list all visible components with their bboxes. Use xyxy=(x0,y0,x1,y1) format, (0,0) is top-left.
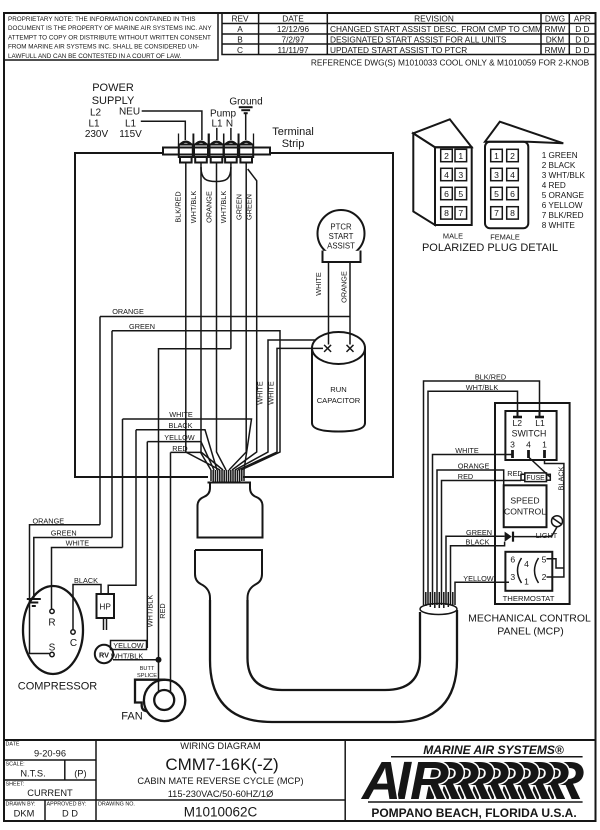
svg-text:ORANGE: ORANGE xyxy=(205,191,214,223)
svg-text:8: 8 xyxy=(444,208,449,218)
jumper loop T2-T4 xyxy=(201,167,231,182)
switch terminal L2 xyxy=(513,411,523,428)
run capacitor xyxy=(312,332,365,432)
svg-text:7: 7 xyxy=(494,208,499,218)
wire YELLOW left horizontal xyxy=(147,433,214,648)
svg-text:RUN: RUN xyxy=(330,385,346,394)
svg-text:1: 1 xyxy=(494,151,499,161)
svg-text:GREEN: GREEN xyxy=(466,528,492,537)
compressor xyxy=(18,586,98,693)
svg-text:LAWFULL AND CAN BE CONTEST: LAWFULL AND CAN BE CONTESTED IN A COURT … xyxy=(8,53,182,60)
PTCR lead ORANGE xyxy=(349,262,351,345)
svg-text:YELLOW: YELLOW xyxy=(463,574,494,583)
MCP caption xyxy=(468,613,591,638)
speed control box xyxy=(504,485,547,527)
reference dwg note xyxy=(311,58,590,68)
svg-text:D D: D D xyxy=(575,35,589,45)
wire WHT/BLK RV to butt splice xyxy=(111,652,159,661)
svg-text:WHT/BLK: WHT/BLK xyxy=(219,191,228,224)
svg-text:4: 4 xyxy=(444,170,449,180)
MCP bundle wire ORANGE xyxy=(437,462,504,605)
svg-text:WHITE: WHITE xyxy=(256,381,265,405)
svg-text:FEMALE: FEMALE xyxy=(490,233,520,242)
wire WHT/BLK from T2 xyxy=(201,163,223,471)
svg-text:12/12/96: 12/12/96 xyxy=(277,24,310,34)
svg-text:GREEN: GREEN xyxy=(129,322,155,331)
svg-text:4: 4 xyxy=(526,440,531,450)
svg-text:UPDATED START ASSIST TO PT: UPDATED START ASSIST TO PTCR xyxy=(330,45,467,55)
svg-text:1: 1 xyxy=(458,151,463,161)
rotated labels WHT/BLK RED fan wires xyxy=(146,595,168,628)
wire GREEN b from T5 xyxy=(232,169,257,470)
switch terminal L1 xyxy=(535,411,545,428)
revision table xyxy=(222,13,596,55)
wire BLACK switch 1 to thermostat 2 xyxy=(545,461,566,577)
lower left wire GREEN to compressor ground xyxy=(34,331,112,598)
svg-text:CAPACITOR: CAPACITOR xyxy=(317,396,361,405)
svg-text:3: 3 xyxy=(494,170,499,180)
main unit box xyxy=(75,153,393,477)
MCP bundle wire BLACK xyxy=(451,538,505,606)
MCP bundle wire RED xyxy=(442,472,522,605)
lower left wire ORANGE to compressor S xyxy=(30,317,101,654)
svg-text:4: 4 xyxy=(524,559,529,569)
svg-text:230V: 230V xyxy=(85,129,109,140)
thermostat box xyxy=(505,552,552,591)
compressor terminals R C S xyxy=(48,609,77,657)
svg-text:1 GREEN: 1 GREEN xyxy=(542,151,578,160)
svg-text:L1: L1 xyxy=(211,119,223,130)
compressor internal ground symbol xyxy=(27,599,41,606)
rotated labels WHITE / ORANGE on PTCR leads xyxy=(314,271,349,303)
svg-text:DKM: DKM xyxy=(546,35,565,45)
fan blower xyxy=(121,680,185,723)
MCP bundle wire GREEN xyxy=(446,528,505,605)
switch terminals 3 4 1 xyxy=(510,440,547,458)
svg-text:REFERENCE DWG(S) M1010033 C: REFERENCE DWG(S) M1010033 COOL ONLY & M1… xyxy=(311,58,590,68)
title block left column xyxy=(6,742,135,819)
svg-text:RMW: RMW xyxy=(545,24,566,34)
wire WHITE capacitor case to funnel xyxy=(235,340,316,470)
wire GREEN long (left to funnel) xyxy=(112,322,280,470)
svg-text:DKM: DKM xyxy=(14,809,35,819)
svg-text:6: 6 xyxy=(444,189,449,199)
MCP bundle wire WHITE xyxy=(433,446,512,605)
MCP bundle wire YELLOW xyxy=(455,574,509,605)
svg-text:DESIGNATED START ASSIST FOR: DESIGNATED START ASSIST FOR ALL UNITS xyxy=(330,35,507,45)
tube end extra hatch xyxy=(426,592,453,608)
svg-text:HP: HP xyxy=(99,602,111,612)
svg-text:N.T.S.: N.T.S. xyxy=(20,769,45,779)
title block frame xyxy=(4,740,596,821)
wire NEU to terminal 2 xyxy=(142,111,202,140)
svg-text:FAN: FAN xyxy=(121,711,142,723)
svg-text:R: R xyxy=(48,618,55,629)
wire BLK/RED from T1 xyxy=(186,163,220,471)
svg-text:MECHANICAL CONTROL: MECHANICAL CONTROL xyxy=(468,613,591,625)
wire RED left horizontal xyxy=(171,444,212,692)
svg-text:Terminal: Terminal xyxy=(272,126,314,138)
PTCR lead WHITE xyxy=(328,262,330,345)
svg-text:3: 3 xyxy=(458,170,463,180)
wire WHT/BLK splice to fan xyxy=(158,660,160,691)
plug detail caption xyxy=(422,242,558,254)
svg-text:MALE: MALE xyxy=(443,232,463,241)
svg-text:D D: D D xyxy=(62,809,78,819)
lower left wire WHITE to compressor R xyxy=(52,538,123,608)
svg-text:2: 2 xyxy=(510,151,515,161)
svg-text:FUSE: FUSE xyxy=(526,475,545,482)
wire L1 to terminal 1 xyxy=(141,121,186,140)
svg-text:N: N xyxy=(226,119,233,130)
wire BLACK compressor C to HP xyxy=(73,576,101,630)
svg-text:FROM MARINE AIR SYSTEMS IN: FROM MARINE AIR SYSTEMS INC. SHALL BE CO… xyxy=(8,44,199,51)
svg-text:RMW: RMW xyxy=(545,45,566,55)
switch box xyxy=(505,411,556,460)
plug pin legend xyxy=(542,151,586,230)
wire ORANGE from T3 xyxy=(217,163,227,471)
svg-text:4: 4 xyxy=(510,170,515,180)
svg-text:5: 5 xyxy=(494,189,499,199)
svg-text:2: 2 xyxy=(542,572,547,582)
wire pump L1 to terminal 3 xyxy=(216,128,218,140)
marine air systems logo xyxy=(360,743,584,820)
svg-text:BUTT: BUTT xyxy=(140,666,155,672)
svg-text:POMPANO BEACH, FLORIDA U.S.: POMPANO BEACH, FLORIDA U.S.A. xyxy=(371,806,576,820)
svg-text:SWITCH: SWITCH xyxy=(512,429,547,439)
MCP bundle wire BLK/RED xyxy=(424,373,540,606)
svg-text:START: START xyxy=(329,232,354,241)
svg-text:3: 3 xyxy=(510,572,515,582)
svg-text:DWG: DWG xyxy=(545,14,565,24)
svg-text:5: 5 xyxy=(458,189,463,199)
wire pump N to terminal 4 xyxy=(230,128,232,140)
svg-text:BLK/RED: BLK/RED xyxy=(475,373,506,382)
light lamp circle xyxy=(536,516,563,540)
wire WHITE left horizontal xyxy=(123,410,252,548)
wire GREEN a from T5 xyxy=(229,163,246,471)
svg-text:L1: L1 xyxy=(88,119,100,130)
svg-text:8: 8 xyxy=(510,208,515,218)
harness strain relief segment 1 xyxy=(198,483,263,538)
svg-text:WHITE: WHITE xyxy=(267,381,276,405)
svg-text:RED: RED xyxy=(458,472,473,481)
svg-text:PTCR: PTCR xyxy=(330,223,352,232)
svg-text:2: 2 xyxy=(444,151,449,161)
svg-text:THERMOSTAT: THERMOSTAT xyxy=(503,594,555,603)
wire WHT/BLK from T4 xyxy=(230,163,232,349)
svg-text:RV: RV xyxy=(99,650,109,659)
diagonal wire switch 4 to fuse xyxy=(529,457,550,477)
svg-text:(P): (P) xyxy=(74,769,86,779)
svg-text:5 ORANGE: 5 ORANGE xyxy=(542,191,585,200)
harness tube inner wall xyxy=(248,600,421,690)
HP switch xyxy=(97,594,115,630)
svg-text:3 WHT/BLK: 3 WHT/BLK xyxy=(542,171,586,180)
svg-text:RED: RED xyxy=(158,603,167,618)
svg-text:ORANGE: ORANGE xyxy=(112,307,144,316)
svg-text:GREEN: GREEN xyxy=(235,194,244,220)
svg-text:GREEN: GREEN xyxy=(245,194,254,220)
YELLOW boxed label at RV xyxy=(111,641,147,651)
title block center xyxy=(137,741,303,820)
svg-text:APR: APR xyxy=(574,14,591,24)
rotated wire labels under strip xyxy=(174,191,254,224)
svg-text:M1010062C: M1010062C xyxy=(184,805,258,820)
svg-text:NEU: NEU xyxy=(119,107,140,118)
svg-text:WHITE: WHITE xyxy=(66,538,90,547)
pump / ground labels xyxy=(210,97,263,130)
wire ORANGE long (left to capacitor right terminal) xyxy=(100,307,350,317)
svg-text:GREEN: GREEN xyxy=(51,528,77,537)
svg-text:DATE: DATE xyxy=(282,14,304,24)
ground symbol xyxy=(239,107,253,140)
svg-text:L2: L2 xyxy=(90,108,102,119)
polarized plug female connector xyxy=(485,122,563,242)
svg-text:5: 5 xyxy=(542,554,547,564)
MCP outer box xyxy=(495,403,570,604)
svg-text:CHANGED START ASSIST DESC.: CHANGED START ASSIST DESC. FROM CMP TO C… xyxy=(330,24,542,34)
svg-text:REV: REV xyxy=(231,14,249,24)
polarized plug male connector xyxy=(413,119,471,240)
svg-text:POWER: POWER xyxy=(92,82,134,94)
svg-text:L2: L2 xyxy=(513,418,523,428)
svg-text:REVISION: REVISION xyxy=(414,14,454,24)
svg-text:SPLICE: SPLICE xyxy=(137,673,157,679)
RV coil xyxy=(95,645,113,663)
terminal strip bar xyxy=(163,148,270,155)
svg-text:1: 1 xyxy=(524,577,529,587)
svg-text:CONTROL: CONTROL xyxy=(504,507,546,517)
svg-text:SPEED: SPEED xyxy=(510,496,539,506)
wire BLACK left horizontal xyxy=(108,421,217,594)
svg-text:CURRENT: CURRENT xyxy=(27,788,73,798)
svg-text:ATTEMPT TO COPY OR DISTRIB: ATTEMPT TO COPY OR DISTRIBUTE WITHOUT WR… xyxy=(8,34,211,41)
svg-text:BLACK: BLACK xyxy=(74,576,98,585)
svg-text:WHITE: WHITE xyxy=(169,410,193,419)
svg-text:DOCUMENT IS THE PROPERTY O: DOCUMENT IS THE PROPERTY OF MARINE AIR S… xyxy=(8,25,212,32)
svg-text:DATE: DATE xyxy=(6,742,20,748)
funnel bundle hatch xyxy=(211,470,244,482)
svg-text:6: 6 xyxy=(510,189,515,199)
proprietary note box xyxy=(4,13,218,60)
svg-text:BLACK: BLACK xyxy=(557,466,566,490)
svg-text:BLK/RED: BLK/RED xyxy=(174,191,183,222)
terminal strip label xyxy=(272,126,314,150)
terminal screw hooks xyxy=(179,134,254,145)
svg-text:WHITE: WHITE xyxy=(455,446,479,455)
rotated labels WHITE WHITE near funnel xyxy=(256,381,276,405)
svg-text:SCALE:: SCALE: xyxy=(6,762,25,768)
MCP bundle wire WHT/BLK xyxy=(428,383,518,605)
svg-text:7/2/97: 7/2/97 xyxy=(281,35,304,45)
svg-text:ASSIST: ASSIST xyxy=(327,242,355,251)
svg-text:115V: 115V xyxy=(119,129,142,140)
svg-text:3: 3 xyxy=(510,440,515,450)
svg-text:WHT/BLK: WHT/BLK xyxy=(146,595,155,628)
svg-text:COMPRESSOR: COMPRESSOR xyxy=(18,681,98,693)
thermostat label xyxy=(503,594,555,603)
wire WHT/BLK T4 to butt splice xyxy=(159,349,231,660)
svg-text:A: A xyxy=(237,24,243,34)
svg-text:CABIN MATE REVERSE CYCLE (: CABIN MATE REVERSE CYCLE (MCP) xyxy=(137,776,303,786)
wire thermostat 5 xyxy=(547,559,564,568)
svg-text:BLACK: BLACK xyxy=(169,421,193,430)
svg-text:WHT/BLK: WHT/BLK xyxy=(189,191,198,224)
harness tube end cap xyxy=(420,604,457,615)
svg-text:2 BLACK: 2 BLACK xyxy=(542,161,576,170)
svg-text:D D: D D xyxy=(575,45,589,55)
svg-text:4 RED: 4 RED xyxy=(542,181,566,190)
svg-text:YELLOW: YELLOW xyxy=(113,641,144,650)
fuse xyxy=(507,469,550,482)
svg-text:PANEL (MCP): PANEL (MCP) xyxy=(497,626,564,638)
svg-text:APPROVED BY:: APPROVED BY: xyxy=(47,802,87,808)
svg-text:7 BLK/RED: 7 BLK/RED xyxy=(542,211,584,220)
svg-text:115-230VAC/50-60HZ/1Ø: 115-230VAC/50-60HZ/1Ø xyxy=(168,789,274,799)
svg-text:Ground: Ground xyxy=(229,97,262,108)
svg-text:L1: L1 xyxy=(535,418,545,428)
svg-text:PROPRIETARY NOTE: THE INFORM: PROPRIETARY NOTE: THE INFORMATION CONTAI… xyxy=(8,16,195,23)
svg-text:9-20-96: 9-20-96 xyxy=(34,749,66,759)
svg-text:6: 6 xyxy=(510,554,515,564)
svg-text:B: B xyxy=(237,35,243,45)
wire WHITE capacitor left terminal to funnel xyxy=(238,348,323,470)
svg-text:DRAWN BY:: DRAWN BY: xyxy=(6,802,36,808)
svg-text:YELLOW: YELLOW xyxy=(164,433,195,442)
svg-text:SUPPLY: SUPPLY xyxy=(92,95,135,107)
svg-text:D D: D D xyxy=(575,24,589,34)
svg-text:C: C xyxy=(237,45,243,55)
harness tube outer wall xyxy=(210,600,457,722)
power supply labels xyxy=(85,82,142,140)
svg-text:6 YELLOW: 6 YELLOW xyxy=(542,201,583,210)
svg-text:L1: L1 xyxy=(125,119,137,130)
PTCR start assist body xyxy=(316,210,366,264)
svg-text:1: 1 xyxy=(542,440,547,450)
harness strain relief segment 2 xyxy=(195,550,262,604)
svg-text:SHEET:: SHEET: xyxy=(6,782,25,788)
svg-text:POLARIZED PLUG DETAIL: POLARIZED PLUG DETAIL xyxy=(422,242,558,254)
svg-text:7: 7 xyxy=(458,208,463,218)
svg-text:CMM7-16K(-Z): CMM7-16K(-Z) xyxy=(165,755,278,774)
svg-text:ORANGE: ORANGE xyxy=(340,271,349,303)
svg-text:WHITE: WHITE xyxy=(314,272,323,296)
svg-text:C: C xyxy=(70,638,77,649)
svg-text:11/11/97: 11/11/97 xyxy=(277,45,308,55)
terminal caps and tabs T1-T5 xyxy=(179,145,253,163)
switch label xyxy=(512,429,547,439)
svg-text:8 WHITE: 8 WHITE xyxy=(542,221,576,230)
capacitor terminal x-marks xyxy=(324,345,353,352)
LED symbol xyxy=(505,527,557,542)
svg-text:Strip: Strip xyxy=(282,138,305,150)
butt splice xyxy=(137,657,161,679)
svg-text:WIRING DIAGRAM: WIRING DIAGRAM xyxy=(180,741,261,751)
svg-text:DRAWING NO.: DRAWING NO. xyxy=(98,802,135,808)
